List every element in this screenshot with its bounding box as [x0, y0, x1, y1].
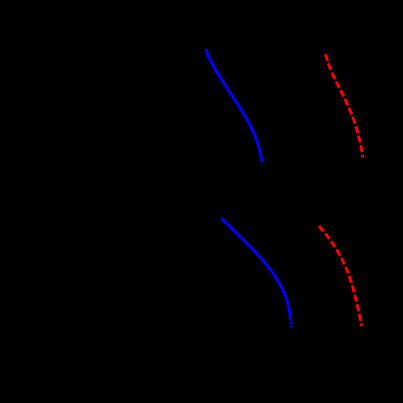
bottom panel red dashed curve	[319, 226, 362, 326]
top panel blue solid curve	[206, 49, 262, 162]
bottom panel blue curve trailing dot 1	[290, 322, 293, 324]
top panel red dashed curve	[326, 54, 363, 158]
bottom panel blue solid curve	[221, 218, 290, 320]
bottom panel blue curve trailing dot 2	[290, 325, 293, 327]
